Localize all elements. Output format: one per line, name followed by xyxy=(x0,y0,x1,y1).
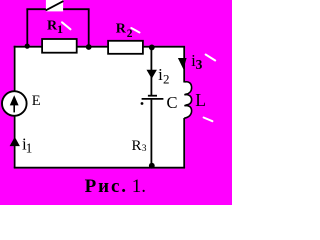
svg-text:R: R xyxy=(116,22,127,37)
svg-text:Рис.: Рис. xyxy=(85,176,128,197)
svg-text:1: 1 xyxy=(57,22,63,36)
svg-text:L: L xyxy=(195,90,206,110)
svg-text:R: R xyxy=(132,138,142,154)
svg-text:1: 1 xyxy=(26,141,33,156)
svg-text:1.: 1. xyxy=(132,176,146,197)
svg-text:E: E xyxy=(32,93,41,109)
svg-text:2: 2 xyxy=(163,71,170,86)
svg-text:3: 3 xyxy=(196,57,203,72)
svg-text:2: 2 xyxy=(127,28,133,40)
svg-text:C: C xyxy=(167,93,178,112)
svg-text:3: 3 xyxy=(142,144,147,154)
